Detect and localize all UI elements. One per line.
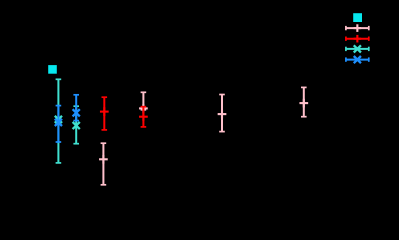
pink errorbar point 1 — [99, 143, 108, 185]
legend pink errorbar handle — [346, 24, 369, 32]
legend turquoise errorbar handle — [346, 45, 369, 52]
red errorbar point 1 — [100, 97, 109, 130]
legend cyan square handle — [353, 13, 362, 22]
red errorbar point 2 — [139, 107, 148, 127]
turquoise errorbar point 2 — [73, 106, 80, 144]
cyan square marker point — [48, 65, 57, 74]
blue errorbar point 2 — [73, 95, 80, 121]
pink errorbar point 2 — [139, 92, 148, 112]
blue errorbar point 1 — [55, 106, 62, 142]
legend red errorbar handle — [346, 35, 369, 43]
pink errorbar point 3 — [218, 95, 227, 132]
pink errorbar point 4 — [299, 87, 308, 116]
legend — [346, 13, 369, 63]
legend blue errorbar handle — [346, 56, 369, 63]
turquoise errorbar point 1 — [55, 79, 62, 163]
